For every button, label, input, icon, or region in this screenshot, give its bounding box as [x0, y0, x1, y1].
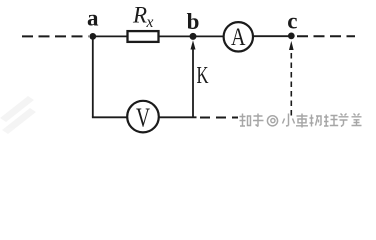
resistor Rx: [128, 31, 159, 42]
wire: voltmeter to K junction: [159, 116, 197, 118]
label a: [87, 5, 99, 30]
小: [283, 114, 295, 127]
wire: left dashed lead: [22, 35, 89, 37]
物: [310, 115, 322, 127]
svg-text:x: x: [146, 14, 154, 31]
堂: [352, 114, 362, 126]
node c: [288, 33, 295, 40]
node b: [190, 33, 197, 40]
wire: bottom dashed: [200, 117, 238, 119]
車: [296, 114, 308, 128]
wire: left vertical from a: [92, 36, 94, 117]
ammeter A1: [224, 22, 253, 51]
svg-text:K: K: [197, 63, 209, 89]
svg-text:b: b: [187, 9, 200, 34]
label K: [197, 63, 209, 89]
label b: [187, 9, 200, 34]
wire ammeter to c: [253, 35, 291, 37]
wire a to Rx: [91, 35, 128, 37]
svg-text:V: V: [136, 103, 150, 133]
wire: bottom left to voltmeter: [92, 116, 128, 118]
label c: [287, 9, 297, 34]
svg-text:a: a: [87, 5, 99, 30]
faint corner watermark bottom-left: [0, 96, 36, 134]
知: [240, 114, 251, 127]
@: [267, 116, 277, 126]
watermark 知乎 @小車物理学堂: [240, 114, 362, 128]
理: [324, 115, 338, 127]
svg-text:c: c: [287, 9, 297, 34]
label Rx: [132, 2, 154, 30]
svg-text:A: A: [231, 24, 246, 51]
学: [339, 114, 349, 127]
wire Rx to b: [159, 35, 193, 37]
wire b to ammeter: [193, 35, 224, 37]
wire: right dashed lead: [297, 35, 355, 37]
switch K probe wire with arrow: [191, 40, 196, 117]
乎: [253, 114, 264, 127]
node a: [89, 33, 96, 40]
wire: dashed vertical probe to c with arrow: [289, 41, 294, 116]
voltmeter V1: [127, 101, 159, 133]
svg-text:R: R: [132, 2, 147, 27]
